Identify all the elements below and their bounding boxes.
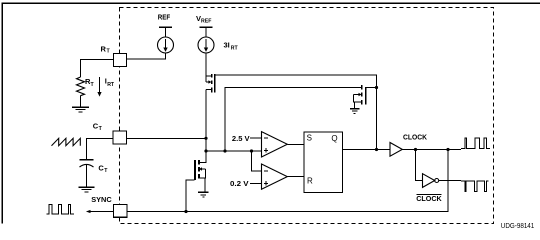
comparator U2 [262, 164, 288, 189]
junction CT pin wire / M1 drain [204, 137, 207, 140]
svg-text:SYNC: SYNC [91, 195, 112, 204]
resistor RT [77, 77, 85, 96]
IC boundary dashed box [120, 8, 494, 224]
svg-text:R: R [307, 176, 313, 185]
junction comparator U2 branch [250, 149, 253, 152]
wire CT node to M2 drain [225, 88, 361, 152]
buffer U4 [390, 143, 402, 157]
wire U1 output to S input [287, 143, 304, 145]
label CLOCK-bar [416, 194, 442, 203]
junction Q / gate wire [375, 148, 378, 151]
inverter U5 [423, 174, 439, 188]
transistor M1 (PMOS charge switch) [206, 74, 216, 93]
sawtooth waveform icon [52, 138, 81, 145]
svg-text:S: S [307, 134, 312, 143]
VREF supply rail [199, 27, 212, 37]
label RT pin [101, 44, 111, 54]
wire 2.5V to comparator U1 [250, 137, 262, 139]
label CT value [98, 163, 108, 174]
wire VREF source to M1 source [205, 53, 207, 76]
svg-text:RT: RT [231, 45, 239, 51]
junction CT node [204, 149, 207, 152]
label IRT [105, 76, 115, 88]
comparator U1 [262, 132, 288, 157]
sync input arrow [86, 210, 114, 213]
svg-text:Q: Q [331, 134, 337, 143]
junction M3 gate branch [184, 210, 187, 213]
pin RT [114, 54, 127, 67]
capacitor CT [80, 159, 94, 187]
label RT value [85, 77, 95, 88]
sync waveform icon [47, 204, 75, 214]
svg-text:3I: 3I [224, 40, 230, 49]
transistor M3 (NMOS sync discharge) [194, 151, 206, 192]
wire CT pin to capacitor [87, 138, 113, 159]
inverted clock waveform icon [461, 181, 489, 191]
wire SYNC net to M3 gate [186, 180, 195, 212]
ground (RT resistor) [72, 96, 89, 112]
wire Q output to buffer [343, 149, 391, 151]
ground (CT capacitor) [79, 186, 95, 192]
junction inverter branch [414, 148, 417, 151]
wire 0.2V to comparator U2 [250, 182, 262, 184]
junction M2 branch [223, 149, 226, 152]
SR latch U3 [304, 132, 343, 193]
label 3IRT [224, 40, 239, 51]
current source I2 (3IRT) [198, 37, 214, 53]
wire inverter output [439, 180, 461, 182]
svg-text:RT: RT [107, 82, 115, 88]
wire CT node to comparator U2 inverting input [252, 151, 262, 171]
svg-text:2.5 V: 2.5 V [232, 134, 250, 143]
pin CT [113, 131, 127, 144]
ground (M2) [350, 108, 359, 114]
wire M1 drain to CT node [205, 90, 207, 152]
junction sync branch [446, 148, 449, 151]
wire CT pin to CT node [126, 137, 206, 139]
label CT pin [93, 121, 103, 132]
svg-text:CLOCK: CLOCK [416, 194, 442, 203]
transistor M2 (NMOS discharge) [354, 85, 377, 109]
ground (M3) [198, 192, 209, 198]
wire CLOCK output [402, 149, 461, 151]
svg-text:REF: REF [158, 12, 171, 21]
svg-text:0.2 V: 0.2 V [230, 179, 249, 188]
wire CLOCK to inverter input [416, 150, 423, 181]
wire RT pin to resistor RT [81, 60, 114, 78]
svg-text:CLOCK: CLOCK [403, 133, 428, 142]
svg-text:REF: REF [201, 19, 211, 25]
REF supply rail [159, 27, 172, 37]
clock waveform icon [461, 138, 490, 148]
pin SYNC [114, 205, 128, 218]
wire CLOCK to SYNC net [127, 150, 448, 212]
svg-text:UDG-98141: UDG-98141 [501, 223, 535, 230]
current source I1 (REF) [158, 37, 174, 53]
junction M2 gate node [375, 86, 378, 89]
wire CT node to comparator U1 [206, 150, 262, 152]
wire REF source to RT pin [127, 53, 166, 59]
label VREF [196, 14, 211, 25]
wire U2 output to R input [287, 176, 304, 178]
wire Q node to transistor gates [215, 75, 377, 150]
current arrow IRT [97, 77, 101, 97]
